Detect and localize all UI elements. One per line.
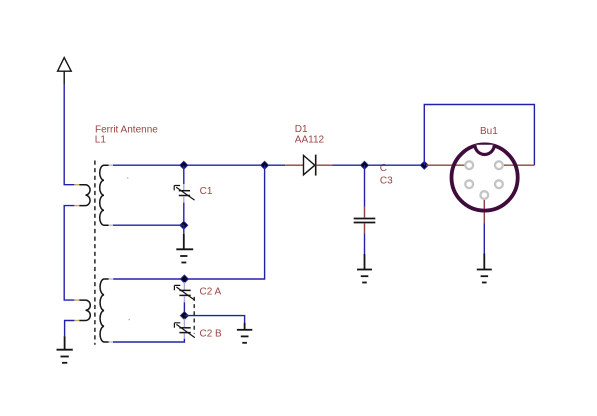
node junction C1 bottom (180, 221, 188, 229)
node junction C2A top (180, 275, 188, 283)
svg-text:C2 A: C2 A (200, 286, 222, 297)
ferrite core dashed line (94, 161, 96, 345)
svg-text:AA112: AA112 (295, 134, 325, 145)
wire Bu1 pin right (red) (504, 164, 534, 166)
inductor L1 primary upper winding (79, 185, 90, 206)
pin C2B bottom (183, 333, 185, 338)
ground GND5 (477, 254, 492, 283)
wire C1 junction to ground (183, 225, 185, 234)
wire C2B bottom (113, 339, 184, 342)
capacitor C3 (354, 219, 376, 223)
inductor L1 primary lower winding (79, 300, 90, 320)
wire C2A bottom to junction (183, 302, 185, 315)
wire antenna to L1 primary top (64, 84, 74, 185)
node junction L1/C1 top (180, 161, 188, 169)
pin C2A top (183, 282, 185, 290)
wire Bu1 pin left (red) (426, 164, 465, 166)
ground GND1 (57, 336, 73, 363)
wire Bu1 top loop (424, 105, 534, 166)
pin C2A bottom (183, 296, 185, 302)
ground GND3 (237, 323, 252, 343)
svg-text:C2 B: C2 B (200, 329, 223, 340)
capacitor C1 (variable) (174, 186, 194, 201)
svg-text:L1: L1 (95, 134, 107, 145)
svg-text:C1: C1 (200, 186, 213, 197)
node junction main net / C2 branch (261, 161, 269, 169)
wire diode to Bu1 net (333, 164, 426, 166)
wire Bu1 bottom to ground (483, 224, 485, 254)
inductor L1 secondary lower winding (100, 279, 109, 342)
pin L1 primary pin1 (74, 184, 79, 186)
wire L1 primary upper bottom to lower top (64, 206, 74, 301)
stray mark 1 (127, 177, 129, 179)
pin L1 secondary upper pin1 (109, 164, 114, 166)
pin L1 primary lower pin1 (74, 299, 79, 301)
connector Bu1 pin mid-right (495, 180, 503, 188)
pin L1 secondary lower pin2 (109, 341, 114, 343)
wire C2 branch down and left (113, 165, 265, 279)
pin L1 secondary lower pin1 (109, 278, 114, 280)
connector Bu1 pin bottom (480, 191, 488, 199)
pin C3 top (red) (364, 207, 366, 218)
wire C1 bottom (183, 203, 185, 226)
ground GND4 (357, 254, 372, 283)
antenna ANT1 (58, 58, 72, 84)
pin C1 bottom (183, 196, 185, 202)
wire C3 bottom to ground (364, 234, 366, 255)
stray mark 2 (128, 319, 130, 321)
ground GND2 (176, 234, 193, 263)
connector Bu1 key notch (475, 145, 494, 155)
pin C3 bottom (red) (364, 223, 366, 233)
wire diode cathode pin (red) (316, 164, 333, 166)
pin C2B top (183, 319, 185, 328)
capacitor C2B (variable) (174, 323, 194, 338)
gang coupling dashed line C2A-C2B (193, 297, 195, 334)
node junction C3 top (361, 161, 369, 169)
connector Bu1 pin mid-left (465, 180, 473, 188)
wire L1 primary lower bottom to ground (65, 321, 75, 337)
pin L1 primary lower pin2 (74, 320, 79, 322)
wire L1 secondary bottom to C1 (113, 224, 184, 226)
connector Bu1 pin top-right (495, 161, 503, 169)
pin L1 primary pin2 (74, 205, 79, 207)
connector Bu1 DIN socket body (452, 144, 518, 210)
pin C1 top (183, 184, 185, 190)
node junction Bu1 loop (420, 161, 428, 169)
inductor L1 secondary upper winding (100, 165, 109, 225)
wire C3 top (364, 165, 366, 206)
wire diode anode pin (red) (285, 164, 303, 166)
wire junction to ground right (184, 316, 244, 323)
capacitor C2A (variable) (174, 285, 194, 300)
svg-text:Bu1: Bu1 (480, 126, 498, 137)
wire main top net (113, 164, 285, 166)
wire Bu1 pin bottom (red) (483, 199, 485, 224)
connector Bu1 pin top-left (465, 161, 473, 169)
svg-text:C3: C3 (380, 176, 393, 187)
pin L1 secondary upper pin2 (109, 224, 114, 226)
node junction C2A/C2B (180, 312, 188, 320)
diode D1 (304, 155, 316, 176)
wire C1 top (183, 165, 185, 184)
